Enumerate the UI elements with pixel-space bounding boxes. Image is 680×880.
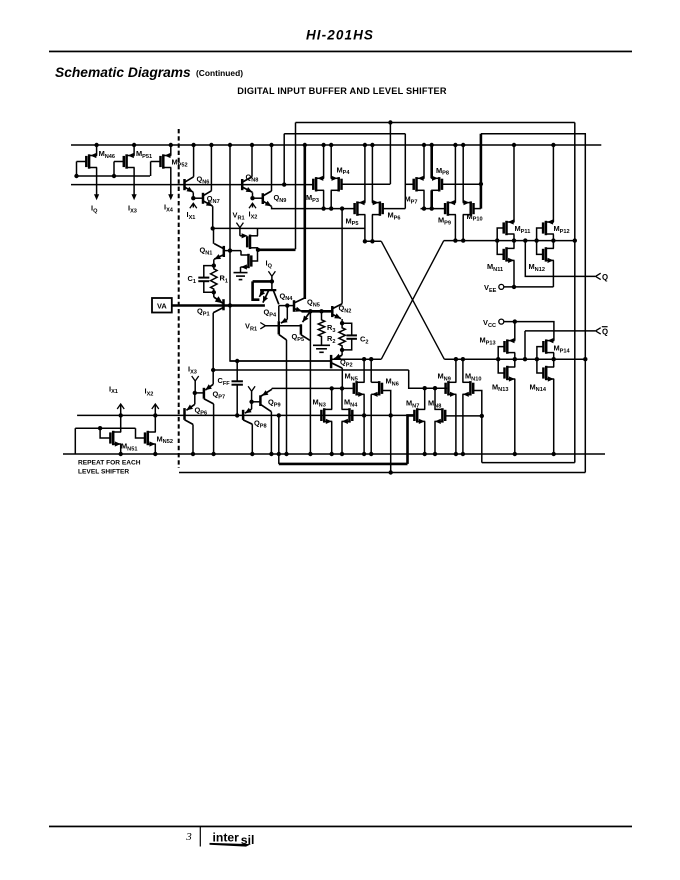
- transistor MP5: [356, 201, 359, 215]
- wire MP4 gate column: [389, 123, 391, 185]
- wire QN5 collector to rail (thick): [303, 145, 306, 299]
- junction MN6 gate column on W2: [389, 470, 393, 474]
- current arrow IX2 repeated cell: [152, 404, 159, 409]
- capacitor CFF: [232, 380, 243, 382]
- transistor MP13: [506, 339, 509, 353]
- wire R1 bottom to QP1 emitter: [213, 292, 215, 297]
- transistor QP4: [278, 321, 281, 334]
- junction MP9 source on crossover wire: [453, 238, 457, 242]
- ground under diode NMOS pair: [234, 272, 248, 274]
- svg-text:Schematic Diagrams: Schematic Diagrams: [55, 65, 191, 80]
- junction MN3 drain: [330, 386, 334, 390]
- wire MP51 source to IX3: [133, 168, 135, 196]
- wire rail B: [213, 369, 409, 371]
- node R1 bottom: [212, 290, 216, 294]
- wire MP52 source to IX4: [170, 168, 172, 196]
- junction QN8 collector: [250, 143, 254, 147]
- junction MN6 drain on output rail: [369, 357, 373, 361]
- wire VCC supply: [504, 322, 554, 341]
- junction gate tie on latch wire: [495, 238, 499, 242]
- wire MN7 gate feedback (thick): [408, 415, 415, 464]
- wire MP6 gate lead: [383, 208, 406, 210]
- junction QP6 collector on bottom rail: [191, 452, 195, 456]
- diode-connected NMOS lower: [247, 254, 250, 268]
- transistor MN10: [469, 381, 472, 395]
- wire outer column right 2: [584, 134, 586, 473]
- transistor QP6: [183, 408, 186, 420]
- wire VEE supply: [504, 286, 554, 288]
- current arrow IQ center: [268, 271, 275, 276]
- wire MP10 gate lead: [474, 208, 481, 210]
- junction QP4 collector on bottom rail: [284, 452, 288, 456]
- node R1 top: [212, 263, 216, 267]
- wire bus drop to base rail: [283, 134, 285, 185]
- junction MN46 drain on rail: [94, 143, 98, 147]
- transistor QN6: [183, 179, 186, 190]
- current arrow IX2: [249, 203, 256, 208]
- svg-text:Q: Q: [602, 273, 608, 282]
- wire QN7 collector to rail: [210, 145, 212, 191]
- junction MN7 drain: [423, 386, 427, 390]
- current feed arrow for QP9: [248, 386, 255, 391]
- wire MP7 gate lead: [405, 183, 413, 185]
- wire crossover bottom-right node: [444, 358, 585, 360]
- node R2 top: [340, 321, 344, 325]
- wire crossover top-left node: [365, 240, 381, 242]
- junction MP10 source: [461, 238, 465, 242]
- terminal VR1 arrow: [260, 323, 265, 329]
- wire QN7 emitter down: [212, 206, 214, 228]
- transistor MP7: [415, 177, 418, 191]
- wire QP8 collector down: [251, 424, 253, 454]
- node IQ / QN4 base: [270, 279, 274, 283]
- dashed cell boundary line: [178, 129, 180, 468]
- junction QP8 collector on bottom rail: [250, 452, 254, 456]
- wire outer column right 1: [574, 123, 576, 463]
- capacitor C2: [346, 334, 357, 336]
- wire QP9 collector down: [270, 412, 272, 454]
- top interconnect line: [296, 122, 575, 124]
- intersil logo: [210, 831, 255, 847]
- wire MP7/MP6 gate column: [404, 134, 406, 209]
- wire QP6 collector down: [192, 424, 194, 454]
- wire rail C: [77, 414, 414, 416]
- wire QN9 collector to rail: [271, 145, 273, 191]
- junction MN8 gate on MN10 gate column: [480, 414, 484, 418]
- junction MN52 drain on rail C: [153, 413, 157, 417]
- wire VA column down to QP2 base rail: [230, 306, 331, 362]
- wire rail C to return wire W1: [278, 415, 280, 464]
- terminal Q output arrow: [596, 273, 601, 279]
- wire QP4 base lead: [278, 306, 280, 322]
- wire MP9 gate row: [421, 208, 447, 210]
- junction MN6 gate column on rail C: [389, 413, 393, 417]
- transistor QN7: [202, 193, 205, 204]
- transistor MN4: [348, 408, 351, 422]
- junction MP4 source on gate row: [329, 206, 333, 210]
- wire QN1 emitter: [213, 259, 215, 265]
- transistor QN4 (diode connected): [260, 289, 276, 291]
- junction MP8 gate: [479, 182, 483, 186]
- junction MP51 gate on bus: [112, 174, 116, 178]
- transistor QN9: [262, 193, 265, 204]
- current arrow IX3: [132, 194, 137, 200]
- transistor MN46: [88, 154, 91, 168]
- transistor MN12: [545, 247, 548, 261]
- junction MN51 drain on rail C: [119, 413, 123, 417]
- wire Q output: [525, 241, 595, 277]
- wire vertical to top line: [295, 123, 297, 250]
- wire QP5 collector down: [309, 311, 311, 454]
- wire return W3: [482, 462, 575, 464]
- transistor MN52: [147, 431, 150, 445]
- transistor QN1: [223, 246, 226, 257]
- junction bias column on rail: [228, 143, 232, 147]
- wire QN7 base lead: [193, 197, 203, 199]
- transistor MP52: [162, 154, 165, 168]
- junction MP13 gate tie: [496, 357, 500, 361]
- wire crossover top-right node: [444, 240, 576, 242]
- wire QN9 base lead: [253, 197, 263, 199]
- header rule: [49, 51, 632, 53]
- wire rail B jog to MN9 gate: [409, 370, 448, 388]
- svg-text:3: 3: [185, 831, 192, 843]
- wire QN6 emitter: [192, 192, 194, 198]
- transistor QP9: [259, 395, 262, 406]
- transistor MN7: [416, 408, 419, 422]
- junction MN5 source on bottom rail: [362, 452, 366, 456]
- junction QP1 collector on rail B: [211, 368, 215, 372]
- footer divider: [199, 826, 201, 847]
- svg-text:(Continued): (Continued): [196, 68, 243, 78]
- junction rail C tap on bottom rail: [277, 452, 281, 456]
- wire emitter bus to QN2 base (thick): [302, 310, 333, 313]
- transistor QN8: [241, 179, 244, 190]
- wire crossover diagonal 2: [381, 241, 444, 360]
- ground under R3: [313, 344, 330, 346]
- wire QN1 base to lower diode NMOS: [224, 250, 241, 252]
- junction MN8 drain: [433, 386, 437, 390]
- svg-text:Q: Q: [602, 327, 608, 336]
- wire QP2 collector to MN5 gate wire: [341, 368, 343, 388]
- node QN6 emitter / QN7 base: [191, 196, 195, 200]
- junction VA line / QN1 base column: [228, 303, 232, 307]
- transistor QN2: [331, 306, 334, 317]
- terminal VR1 entry arrow: [236, 223, 243, 228]
- terminal VCC: [499, 319, 504, 324]
- transistor MP8: [438, 177, 441, 191]
- junction MN6 source on bottom rail: [369, 452, 373, 456]
- transistor MN9: [447, 381, 450, 395]
- junction QP9 collector on bottom rail: [269, 452, 273, 456]
- wire bias column from rail to VA line: [229, 145, 231, 306]
- wire MP11/MN11 gate tie: [497, 228, 504, 254]
- resistor R1: [211, 266, 217, 293]
- junction MP3 source on gate row: [321, 206, 325, 210]
- junction QN9 collector: [269, 143, 273, 147]
- current arrow IX1: [190, 203, 197, 208]
- wire MN51/MN52 gate bus: [75, 427, 135, 429]
- current arrow IX3 lower: [192, 376, 199, 381]
- current arrow IX1 repeated cell: [117, 404, 124, 409]
- transistor QN5: [293, 300, 296, 312]
- junction Q-bar tap: [523, 357, 527, 361]
- arrow into diode NMOS gate: [242, 233, 248, 238]
- junction QN7 emitter / QN1 collector: [211, 226, 215, 230]
- wire base rail to MP3 gate: [71, 184, 313, 186]
- svg-text:LEVEL SHIFTER: LEVEL SHIFTER: [78, 469, 129, 476]
- wire QP7 emitter from rail B: [212, 370, 214, 384]
- junction MN52 source on bottom rail: [153, 452, 157, 456]
- svg-text:DIGITAL INPUT BUFFER AND LEVEL: DIGITAL INPUT BUFFER AND LEVEL SHIFTER: [237, 86, 447, 96]
- wire MP52 drain: [170, 145, 172, 156]
- junction MP13 drain on VCC: [513, 319, 517, 323]
- transistor QP2: [330, 355, 333, 368]
- junction QP4 emitter tap: [285, 303, 289, 307]
- transistor MN5: [355, 381, 358, 395]
- wire QN4 collector to QN5 base: [279, 305, 294, 307]
- junction MP4 gate line on top line: [388, 120, 392, 124]
- wire Q-bar output: [525, 330, 595, 332]
- transistor MP6: [379, 201, 382, 215]
- transistor QP7: [203, 388, 206, 399]
- svg-text:VA: VA: [157, 301, 167, 310]
- resistor R2: [339, 323, 345, 350]
- junction CFF bottom on rail C: [235, 413, 239, 417]
- diode-connected NMOS upper (VR1 clamp): [249, 235, 252, 249]
- wire MN46 source to IQ: [96, 168, 98, 196]
- wire return W1 (thick): [279, 463, 408, 466]
- junction MN4 source on bottom rail: [340, 452, 344, 456]
- wire QN1 collector: [213, 228, 215, 243]
- junction MP51 drain on rail: [132, 143, 136, 147]
- wire MP8 gate lead: [442, 183, 481, 185]
- transistor QP8: [242, 410, 245, 420]
- junction MN9 source on bottom rail: [454, 452, 458, 456]
- wire MN10 gate column: [473, 391, 482, 463]
- svg-text:inter: inter: [213, 831, 240, 845]
- transistor MP3: [315, 177, 318, 191]
- wire QP7 collector down: [213, 404, 215, 454]
- wire MN46 drain: [96, 145, 98, 156]
- junction MN10 drain: [461, 357, 465, 361]
- svg-text:HI-201HS: HI-201HS: [306, 28, 374, 43]
- wire QP9 base lead: [252, 401, 261, 403]
- junction MN14 source on bottom rail: [552, 452, 556, 456]
- node QP7 base: [193, 391, 197, 395]
- wire QP7 base lead: [195, 392, 204, 394]
- wire MP12/MN12 gate tie: [537, 228, 544, 254]
- junction MP14 gate tie: [535, 357, 539, 361]
- wire MP51 drain: [133, 145, 135, 156]
- junction R3 top: [319, 309, 323, 313]
- wire IQ hook left (thick): [253, 281, 260, 299]
- wire MP14/MN14 gate tie: [537, 347, 544, 373]
- junction MN51 source on bottom rail: [119, 452, 123, 456]
- transistor MP14: [545, 339, 548, 353]
- svg-text:REPEAT FOR EACH: REPEAT FOR EACH: [78, 460, 141, 467]
- wire crossover diagonal 1: [381, 241, 444, 359]
- wire QP4 collector down: [286, 340, 288, 454]
- wire MN6 gate down to return wire: [382, 391, 391, 473]
- wire MP4 gate lead: [342, 183, 391, 185]
- junction MN7 source on bottom rail: [423, 452, 427, 456]
- transistor MN11: [505, 247, 508, 261]
- wire bus right segment: [481, 133, 586, 135]
- node R2 bottom: [340, 348, 344, 352]
- transistor MN13: [506, 366, 509, 380]
- footer rule: [49, 826, 632, 828]
- junction MN8 source on bottom rail: [433, 452, 437, 456]
- junction MN11 source on VEE: [512, 285, 516, 289]
- transistor QP5: [300, 324, 303, 334]
- wire bus left segment: [284, 133, 405, 135]
- wire QN6 collector to rail: [193, 145, 195, 177]
- node QP9 base: [249, 400, 253, 404]
- wire VR1 base line: [266, 325, 301, 327]
- junction MP5 source: [363, 239, 367, 243]
- transistor MP10: [469, 201, 472, 215]
- junction MN5 source on rail C: [362, 413, 366, 417]
- wire crossover bottom-left node: [331, 358, 381, 360]
- wire MN8 gate lead: [445, 415, 482, 417]
- wire VA line (thick): [172, 304, 265, 307]
- transistor MP9: [447, 201, 450, 215]
- wire MP13/MN13 gate tie: [498, 347, 504, 373]
- current arrow IQ: [94, 194, 99, 200]
- junction MP7 source on gate row: [422, 206, 426, 210]
- transistor MP4: [337, 177, 340, 191]
- junction MN46 gate on bus: [74, 174, 78, 178]
- junction MP12 gate tie: [534, 238, 538, 242]
- junction MN13 source on bottom rail: [513, 452, 517, 456]
- wire IQ hook top (thick): [253, 280, 272, 283]
- wire QN7 emitter row to MP5 source column: [213, 227, 365, 229]
- node diode NMOS pair middle: [256, 248, 260, 252]
- junction MN10 source on bottom rail: [461, 452, 465, 456]
- wire gate bus of bias mirrors: [77, 175, 151, 177]
- terminal Q-bar output arrow: [596, 328, 601, 334]
- node QN8 emitter / QN9 base: [250, 196, 254, 200]
- wire QN9 emitter to MP5 gate row: [272, 206, 356, 208]
- junction rail C tap: [277, 413, 281, 417]
- wire MP8/MP10 gate column (thick): [480, 134, 483, 209]
- resistor R3: [318, 311, 324, 345]
- transistor MN51: [112, 431, 115, 445]
- junction QP5 collector on bottom rail: [308, 452, 312, 456]
- junction QP5 emitter: [308, 309, 312, 313]
- wire diode pair node to top line (thick): [258, 249, 296, 252]
- wire bottom rail: [63, 453, 605, 455]
- transistor MN8: [441, 408, 444, 422]
- transistor MN3: [323, 408, 326, 422]
- wire rail T to QP2 base: [230, 360, 331, 362]
- terminal VEE: [499, 284, 504, 289]
- junction QN1 base on VA column: [228, 248, 232, 252]
- junction MN3 source on bottom rail: [330, 452, 334, 456]
- junction MN5 drain on output rail: [362, 357, 366, 361]
- junction QN2 collector: [340, 206, 344, 210]
- transistor MP12: [545, 221, 548, 235]
- junction QP7 collector on bottom rail: [211, 452, 215, 456]
- transistor QP1: [222, 299, 225, 310]
- wire VR1 to diode gate: [240, 235, 244, 237]
- junction latch wire on outer column: [573, 238, 577, 242]
- junction MN4 drain / QP2 collector: [340, 386, 344, 390]
- transistor MN6: [378, 381, 381, 395]
- junction MN51 gate on bus: [98, 426, 102, 430]
- wire QP9 emitter to MN5 gate: [272, 387, 353, 389]
- junction output rail on outer column: [583, 357, 587, 361]
- current arrow IX4: [168, 194, 173, 200]
- wire return W2: [179, 472, 585, 474]
- junction MP6 source: [370, 239, 374, 243]
- junction MN9 drain: [454, 357, 458, 361]
- junction QN7 collector: [209, 143, 213, 147]
- transistor MN14: [545, 366, 548, 380]
- junction MP52 drain on rail: [169, 143, 173, 147]
- capacitor C1: [198, 277, 209, 279]
- transistor MP11: [505, 221, 508, 235]
- wire positive supply rail: [71, 144, 601, 146]
- transistor MP51: [125, 154, 128, 168]
- junction MP8 source on gate row: [430, 206, 434, 210]
- junction QN6 collector: [191, 143, 195, 147]
- wire QN2 collector to MP5 gate row: [341, 209, 343, 304]
- node CFF top: [235, 359, 239, 363]
- node VA input box: [152, 298, 172, 313]
- junction base rail / bus drop: [282, 182, 286, 186]
- wire QN8 emitter: [252, 192, 254, 198]
- wire QN8 collector to rail: [251, 145, 253, 177]
- junction QN5 collector on rail: [303, 143, 307, 147]
- wire QP1 collector down: [212, 313, 214, 370]
